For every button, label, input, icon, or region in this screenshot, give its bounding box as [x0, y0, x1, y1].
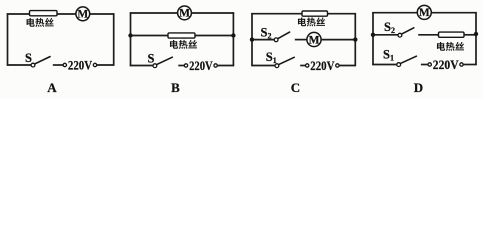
- svg-text:S: S: [25, 51, 32, 65]
- circuit C right wire: [354, 13, 356, 66]
- switch S2 (C): pivot + blade: [274, 32, 289, 42]
- label 电热丝 (B): [170, 40, 197, 49]
- svg-text:C: C: [291, 80, 300, 95]
- switch S1 (D): pivot + blade: [397, 56, 417, 66]
- circuit C middle rung wire left: [252, 39, 274, 41]
- circuit D middle rung wire right: [464, 34, 477, 36]
- svg-text:B: B: [171, 80, 180, 95]
- resistor 电热丝 box (A, R): [30, 11, 58, 16]
- circuit C middle rung wire right: [321, 39, 355, 41]
- svg-text:M: M: [419, 7, 430, 19]
- circuit D bottom wire left segment: [372, 64, 397, 66]
- circuit D top wire left segment: [372, 12, 417, 14]
- circuit D bottom wire right segment: [463, 64, 477, 66]
- label 电热丝 (A): [27, 18, 54, 27]
- circuit A left wire: [7, 13, 9, 65]
- circuit B middle rung wire right: [195, 35, 234, 37]
- svg-text:M: M: [179, 8, 190, 20]
- circuit A top wire middle segment: [57, 13, 77, 15]
- switch S2 (D): pivot + blade: [398, 28, 414, 37]
- circuit D left wire: [372, 12, 374, 65]
- svg-text:A: A: [47, 80, 57, 95]
- source 220V terminals (B): [184, 64, 217, 67]
- switch S (A): pivot + blade: [31, 57, 50, 67]
- circuit B right wire: [232, 12, 234, 66]
- svg-text:S: S: [148, 52, 155, 66]
- circuit D bottom wire mid segment: [421, 64, 428, 66]
- circuit C bottom wire left segment: [251, 65, 275, 67]
- junction dot (B rung left): [128, 33, 132, 37]
- junction dot (D rung left): [371, 33, 375, 37]
- svg-text:220V: 220V: [433, 58, 459, 72]
- motor M (B): [178, 6, 192, 20]
- circuit C bottom wire mid segment: [300, 65, 305, 67]
- circuit B top wire left segment: [130, 12, 178, 14]
- circuit B bottom wire mid segment: [178, 65, 184, 67]
- source 220V terminals (C): [306, 64, 340, 67]
- svg-text:220V: 220V: [68, 59, 92, 73]
- circuit D middle rung wire left: [373, 34, 398, 36]
- motor M (D): [417, 5, 431, 19]
- resistor 电热丝 box (B, R): [168, 33, 195, 38]
- circuit B bottom wire left segment: [130, 65, 153, 67]
- label 电热丝 (D): [437, 42, 464, 51]
- switch S (B): pivot + blade: [153, 57, 172, 67]
- circuit C top wire right segment: [327, 13, 356, 15]
- circuit B top wire right segment: [191, 12, 234, 14]
- circuit D top wire right segment: [431, 12, 477, 14]
- motor M (C): [307, 32, 321, 46]
- svg-text:220V: 220V: [189, 59, 213, 73]
- circuit C left wire: [251, 13, 253, 66]
- label 电热丝 (C): [298, 17, 325, 26]
- resistor 电热丝 box (D, R): [439, 32, 465, 37]
- circuit A bottom wire mid segment: [53, 64, 63, 66]
- circuit A right wire: [113, 13, 115, 65]
- svg-text:M: M: [309, 34, 320, 46]
- circuit A top wire right segment: [89, 13, 114, 15]
- svg-text:220V: 220V: [310, 59, 334, 73]
- junction dot (C rung left): [250, 37, 254, 41]
- circuit B left wire: [130, 12, 132, 66]
- circuit C middle rung wire mid: [295, 39, 307, 41]
- circuit A bottom wire left segment: [7, 64, 32, 66]
- resistor 电热丝 box (C, R): [302, 11, 328, 16]
- junction dot (C rung right): [353, 37, 357, 41]
- circuit A top wire left segment: [7, 13, 30, 15]
- switch S1 (C): pivot + blade: [275, 57, 294, 67]
- circuit A bottom wire right segment: [97, 64, 115, 66]
- circuit C bottom wire right segment: [339, 65, 356, 67]
- svg-text:M: M: [77, 9, 88, 21]
- source 220V terminals (A): [63, 63, 97, 66]
- motor M (A): [76, 7, 90, 21]
- source 220V terminals (D): [428, 63, 463, 66]
- circuit B bottom wire right segment: [217, 65, 234, 67]
- junction dot (D rung right): [474, 32, 478, 36]
- circuit D right wire: [475, 12, 477, 65]
- circuit B middle rung wire left: [131, 35, 169, 37]
- svg-text:D: D: [414, 80, 423, 95]
- circuit D middle rung wire mid: [418, 34, 439, 36]
- junction dot (B rung right): [231, 33, 235, 37]
- circuit C top wire left segment: [251, 13, 302, 15]
